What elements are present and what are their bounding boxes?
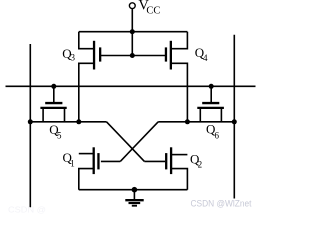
wire right tall vertical <box>233 35 235 199</box>
wire left tall vertical <box>29 44 31 207</box>
svg-text:1: 1 <box>70 159 75 169</box>
svg-text:5: 5 <box>57 131 62 141</box>
node Q6 gate junction <box>209 84 214 89</box>
label Vcc <box>138 0 160 16</box>
label Q6 <box>206 122 220 141</box>
wire Q2 drain lead <box>172 154 187 156</box>
transistor Q2 <box>166 147 171 174</box>
node ground junction <box>132 187 138 193</box>
svg-text:CSDN @: CSDN @ <box>8 206 46 215</box>
wire Q2 source lead <box>172 169 187 190</box>
wire cross diagonal B <box>120 122 158 162</box>
transistor Q3 <box>94 41 100 70</box>
svg-text:CSDN @WlZnet: CSDN @WlZnet <box>191 199 252 209</box>
wire Q4 drain drop <box>172 32 188 49</box>
wire Q1 source lead <box>79 169 93 190</box>
wire bottom rail <box>79 189 188 191</box>
wire Q6 gate lead <box>210 86 212 102</box>
wire Q6 left lead <box>199 109 201 122</box>
node rail2 Q4-column junction <box>185 119 190 124</box>
node rail2 right-vertical junction <box>232 119 237 124</box>
wire rail2 right <box>158 121 234 123</box>
node gate-rail junction <box>130 53 135 58</box>
label Q2 <box>190 151 202 169</box>
wire rail mid <box>6 85 256 87</box>
transistor Q4 <box>166 41 171 70</box>
ground <box>125 190 143 206</box>
wire Q5 gate lead <box>53 86 55 102</box>
transistor Q1 <box>94 147 99 174</box>
wire Vcc stem <box>131 9 133 56</box>
node rail2 left-vertical junction <box>28 119 33 124</box>
wire rail2 left <box>30 121 106 123</box>
label Q3 <box>62 46 75 63</box>
svg-text:6: 6 <box>215 130 220 140</box>
wire Q3 source lead <box>79 63 93 122</box>
terminal Vcc <box>129 3 135 9</box>
wire Q5 right lead <box>64 109 66 122</box>
label Q1 <box>63 150 75 169</box>
node Q5 gate junction <box>51 84 56 89</box>
node rail2 Q3-column junction <box>76 119 81 124</box>
transistor Q5 <box>40 103 66 108</box>
wire top rail <box>79 31 188 33</box>
wire Q5 left lead <box>42 109 44 122</box>
wire Q2 gate lead <box>144 160 165 162</box>
label Q4 <box>195 45 208 63</box>
wire cross diagonal A <box>107 122 145 162</box>
svg-text:2: 2 <box>198 160 203 170</box>
wire Q4 source lead <box>172 63 188 122</box>
wire Q1 gate lead <box>101 160 120 162</box>
node Vcc-rail junction <box>130 29 135 34</box>
label Q5 <box>49 122 62 141</box>
transistor Q6 <box>197 103 224 108</box>
svg-text:3: 3 <box>71 53 76 63</box>
svg-text:CC: CC <box>146 6 160 17</box>
wire Q6 right lead <box>220 109 222 122</box>
wire Q1 drain lead <box>79 153 93 155</box>
wire Q3 drain drop <box>79 32 93 49</box>
svg-text:4: 4 <box>203 53 208 63</box>
wire gate rail Q3-Q4 <box>101 55 165 57</box>
